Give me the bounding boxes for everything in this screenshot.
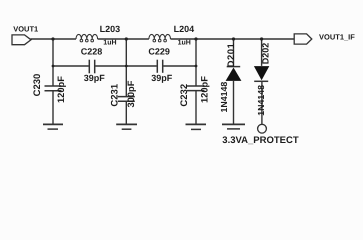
net connector circle (3.3VA_PROTECT) [258,124,267,133]
wire: main to D201 [233,39,235,66]
capacitor C231 [118,96,135,98]
wire: L203 to L204 [98,38,149,40]
node A vertical wire (x=53) [52,39,54,86]
wire: L204 to VOUT1_IF [171,38,295,40]
diode D201 (triangle) [226,68,242,81]
junction at D202 [260,37,263,40]
svg-text:1uH: 1uH [178,40,191,47]
svg-text:120pF: 120pF [200,76,210,103]
ground (under C230) [43,123,63,125]
junction at D201 [232,37,235,40]
svg-text:L203: L203 [100,24,121,34]
svg-text:1N4148: 1N4148 [256,85,266,116]
wire: C228 to node B [95,65,126,67]
ground (under C232) [186,123,207,125]
port VOUT1 [12,35,31,45]
power rail symbol 3.3VA_PROTECT [222,123,245,125]
wire: node B to C229 [126,65,156,67]
svg-text:1uH: 1uH [103,40,116,47]
svg-text:C231: C231 [110,83,121,106]
svg-text:300pF: 300pF [126,80,136,107]
wire: main to D202 [261,39,263,66]
node B vertical wire (x=126.3) [125,39,127,97]
svg-text:3.3VA_PROTECT: 3.3VA_PROTECT [222,135,299,146]
diode D202 (cathode bar) [254,80,268,82]
wire: C231 to ground [125,101,127,124]
svg-text:D201: D201 [226,42,237,67]
junction node A / C228 branch [52,65,55,68]
capacitor C232 [187,85,205,87]
svg-text:39pF: 39pF [151,73,173,83]
svg-text:VOUT1_IF: VOUT1_IF [319,33,355,42]
ground (under C231) [116,123,137,125]
wire: C229 to node C [163,65,196,67]
svg-text:C229: C229 [148,46,170,56]
wire: D201 to 3.3VA rail [233,81,235,124]
diode D202 (triangle) [254,66,269,80]
capacitor C230 [45,85,62,87]
capacitor C229 [156,60,158,73]
svg-text:C232: C232 [179,84,190,107]
svg-text:C228: C228 [81,46,103,56]
svg-text:39pF: 39pF [84,73,106,83]
wire: C230 to ground [52,91,54,125]
wire: C232 to ground [195,91,197,125]
svg-text:1N4148: 1N4148 [219,82,229,113]
junction node C / branch [195,65,198,68]
capacitor C228 [88,60,90,74]
junction at node C [194,37,197,40]
svg-text:120pF: 120pF [56,76,66,103]
node C vertical wire (x=196) [195,39,197,86]
junction at node A [51,37,54,40]
svg-text:L204: L204 [174,24,195,34]
junction node B / branch [125,65,128,68]
svg-text:VOUT1: VOUT1 [13,24,38,33]
junction at node B [125,37,128,40]
diode D201 (cathode bar) [227,66,241,68]
inductor L204 [149,34,171,39]
wire: VOUT1 to L203 [31,38,77,40]
port VOUT1_IF [294,34,312,44]
svg-text:C230: C230 [32,74,43,97]
wire: D202 to connector circle [261,81,263,124]
wire: node A to C228 [53,65,89,67]
inductor L203 [76,34,98,39]
svg-text:D202: D202 [261,43,271,65]
